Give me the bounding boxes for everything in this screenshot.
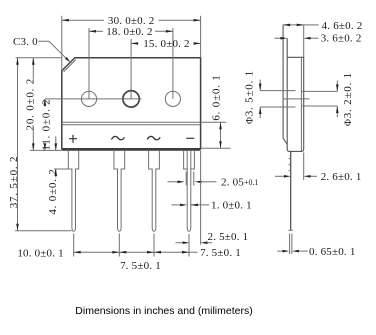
- bottom-left ext line (pin bottom): [15, 230, 72, 232]
- body right edge ext line (long): [200, 151, 202, 245]
- svg-text:Φ3. 5±0. 1: Φ3. 5±0. 1: [243, 70, 255, 124]
- side view inner line: [300, 57, 302, 151]
- dim 37.5 line: [17, 58, 19, 231]
- svg-text:7. 5±0. 1: 7. 5±0. 1: [120, 260, 161, 272]
- dim 2.6 line: [275, 175, 284, 177]
- side view front ext line: [303, 25, 305, 58]
- front view body outline: [62, 58, 201, 149]
- dim 15.0 line: [131, 42, 137, 44]
- svg-text:10. 0±0. 1: 10. 0±0. 1: [17, 247, 64, 259]
- dim 20.0 text: [25, 79, 34, 130]
- dim 2.05 ext lines: [185, 172, 187, 186]
- side view lead: [290, 151, 292, 230]
- dim 30.0 ext lines: [61, 16, 63, 71]
- pin 2: [114, 151, 125, 231]
- svg-text:15. 0±0. 2: 15. 0±0. 2: [143, 38, 190, 50]
- dim 4.0 text: [48, 178, 57, 213]
- pin bottom ext lines: [73, 234, 75, 257]
- svg-text:4. 0±0. 2: 4. 0±0. 2: [47, 168, 59, 214]
- dim 2.5 line: [176, 242, 183, 244]
- chamfer inner line: [64, 60, 76, 72]
- bottom chain dim line: [74, 251, 189, 253]
- svg-text:7. 5±0. 1: 7. 5±0. 1: [200, 247, 241, 259]
- svg-text:1. 0±0. 1: 1. 0±0. 1: [211, 200, 252, 212]
- dim 30.0 line: [62, 19, 104, 21]
- dim 15.0 ext line: [130, 39, 132, 99]
- dim 11.0 line: [44, 99, 46, 150]
- top-left ext line: [16, 57, 62, 59]
- pin 1: [68, 151, 78, 231]
- svg-text:37. 5±0. 2: 37. 5±0. 2: [8, 156, 20, 209]
- side body bottom ext: [303, 153, 305, 181]
- marking minus: [186, 137, 194, 139]
- side view plastic outline: [287, 38, 304, 151]
- hole 1: [81, 91, 96, 106]
- pin 4 inner lines: [186, 151, 188, 169]
- hole ext lines phi3.5: [260, 90, 295, 92]
- body bottom ext line: [30, 149, 62, 151]
- dim 1.0 line: [172, 204, 181, 206]
- dim 0.65 line: [277, 250, 282, 252]
- svg-text:2. 5±0. 1: 2. 5±0. 1: [208, 231, 249, 243]
- svg-text:3. 6±0. 2: 3. 6±0. 2: [321, 33, 362, 45]
- lead ext lines below: [289, 234, 291, 255]
- dim 3.6 line: [275, 37, 281, 39]
- dim 18.0 ext lines: [88, 28, 90, 99]
- marking tilde 2: [147, 136, 160, 139]
- C3.0 leader: [39, 41, 67, 58]
- marking tilde 1: [112, 136, 125, 139]
- lead end cap: [289, 229, 293, 231]
- svg-text:18. 0±0. 2: 18. 0±0. 2: [106, 26, 153, 38]
- pin 3: [149, 151, 160, 231]
- lead ticks: [289, 158, 291, 160]
- strip top double line: [62, 121, 200, 123]
- hole centerline: [45, 98, 142, 100]
- svg-text:4. 6±0. 2: 4. 6±0. 2: [322, 20, 363, 32]
- dim 6.0 line: [220, 122, 222, 148]
- dim phi3.5 arrows: [259, 80, 261, 91]
- dim 4.6 line: [283, 24, 304, 26]
- dim 11.0 text: [41, 107, 50, 144]
- hole ext lines phi3.2: [301, 90, 337, 92]
- svg-text:C3. 0: C3. 0: [13, 36, 38, 48]
- svg-text:Φ3. 2±0. 1: Φ3. 2±0. 1: [342, 72, 354, 126]
- front view bottom edge thick: [62, 149, 201, 151]
- dim phi3.2 arrows: [336, 81, 338, 92]
- dim 2.05 line: [168, 181, 178, 183]
- side view metal back edge: [283, 25, 287, 145]
- svg-text:6. 0±0. 1: 6. 0±0. 1: [210, 74, 222, 120]
- pin step ext line: [54, 168, 68, 170]
- hole 3: [165, 91, 180, 106]
- svg-text:0. 65±0. 1: 0. 65±0. 1: [309, 246, 356, 258]
- pin 4: [184, 151, 195, 231]
- svg-text:2. 6±0. 1: 2. 6±0. 1: [321, 171, 362, 183]
- marking plus: [69, 135, 77, 143]
- side hole centerline: [283, 98, 310, 100]
- svg-text:11. 0±0. 2: 11. 0±0. 2: [40, 99, 52, 151]
- svg-text:Dimensions in inches and (mili: Dimensions in inches and (milimeters): [75, 305, 252, 317]
- dim 4.0 arrows: [55, 137, 57, 151]
- dim 18.0 line: [89, 30, 103, 32]
- dim 6.0 ext lines: [201, 121, 227, 123]
- hole 2 bold: [123, 91, 139, 107]
- svg-text:2. 05+0.1: 2. 05+0.1: [221, 177, 259, 189]
- dim 20.0 line: [32, 58, 34, 151]
- svg-text:20. 0±0. 2: 20. 0±0. 2: [24, 78, 36, 131]
